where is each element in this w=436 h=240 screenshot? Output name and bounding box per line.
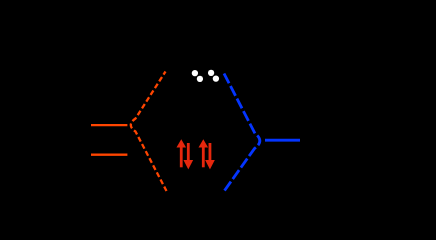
antibonding electron circle 3 <box>208 70 214 76</box>
electron pair 1 up arrow <box>176 139 186 167</box>
electron pair 1 down arrow <box>183 143 193 169</box>
electron pair 2 down arrow <box>205 143 215 169</box>
right atomic level (blue) <box>265 139 300 142</box>
electron pair 2 up arrow <box>199 139 209 167</box>
antibonding electron circle 4 <box>213 75 219 81</box>
antibonding electron circle 2 <box>197 76 203 82</box>
orange correlation dashed path (up, vertex curve, down) <box>131 72 167 192</box>
blue correlation dashed path (up, vertex curve, down) <box>224 74 260 192</box>
left atomic level upper (orange) <box>91 124 127 126</box>
antibonding electron circle 1 <box>192 70 198 76</box>
left atomic level lower (orange) <box>91 154 127 156</box>
